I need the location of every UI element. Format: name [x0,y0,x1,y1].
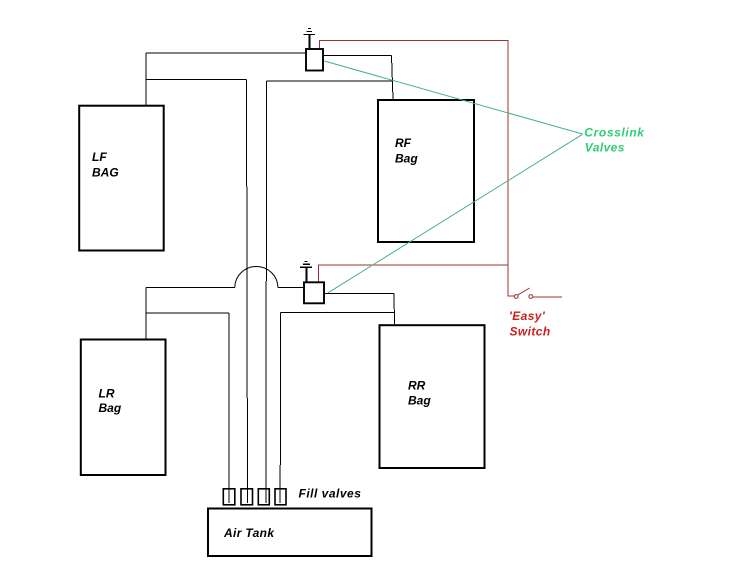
label LF BAG [92,150,119,180]
wire drop to fill valve 4 [279,313,281,504]
label LR Bag [99,387,122,416]
wire center drop to fill valve 3 [265,81,268,503]
label RF Bag [395,136,418,166]
svg-text:BAG: BAG [92,166,119,180]
green pointer line to valve 2 [328,134,583,292]
label Crosslink Valves [584,126,645,155]
green pointer line to valve 1 [324,61,582,134]
wire valve 2 to RR riser [324,292,395,294]
air bag RR Bag [380,325,485,468]
svg-text:Switch: Switch [510,325,551,339]
wire LR tee toward fill valve 1 [146,312,229,314]
wire center drop to fill valve 2 [247,80,248,504]
svg-text:RR: RR [408,379,426,393]
antenna symbol on valve 2 [300,261,312,281]
wire RR tee toward fill valve 4 [281,312,395,314]
label RR Bag [408,379,431,408]
wire arc to valve 2 [278,287,305,289]
crosslink valve 2 (rear) [304,282,324,303]
air bag LR Bag [81,340,166,476]
fill valve 4 [275,489,286,505]
red wire valve 2 branch [319,265,508,282]
fill valve 3 [258,489,269,505]
svg-text:LF: LF [92,150,107,164]
svg-text:RF: RF [395,136,412,150]
wire hop arc over center drops [235,266,278,287]
wire valve 1 to RF riser [324,54,392,56]
air bag LF BAG [79,106,164,251]
wire RF bag riser [392,55,394,99]
fill valve 2 [241,489,253,505]
air tank [208,509,372,557]
wire drop to fill valve 1 [228,313,230,503]
easy switch terminal 2 [529,295,533,299]
svg-text:Bag: Bag [395,152,418,166]
red wire valve 1 to easy switch [319,41,514,297]
svg-text:Air Tank: Air Tank [223,526,275,540]
wire LR riser to arc [146,287,235,289]
svg-text:LR: LR [99,387,115,401]
easy switch blade [518,288,530,295]
red wire from switch [533,296,562,298]
svg-text:Bag: Bag [408,394,431,408]
wire LF tee to center drop [146,79,247,81]
antenna symbol on valve 1 [304,29,315,49]
easy switch terminal 1 [514,295,518,299]
svg-text:Valves: Valves [585,141,625,155]
wire center tee to RF riser [267,80,393,82]
svg-text:Crosslink: Crosslink [584,126,645,140]
wire LR bag riser [145,288,147,341]
svg-text:'Easy': 'Easy' [509,309,546,323]
fill valve 1 [223,489,235,505]
wire RR bag riser [393,293,396,324]
label 'Easy' Switch [509,309,551,339]
svg-text:Fill valves: Fill valves [299,487,362,501]
crosslink valve 1 (front) [306,49,323,71]
wire LF riser to valve 1 [146,52,306,54]
wire LF bag riser [145,53,147,106]
svg-text:Bag: Bag [99,401,122,415]
air bag RF Bag [378,100,474,242]
